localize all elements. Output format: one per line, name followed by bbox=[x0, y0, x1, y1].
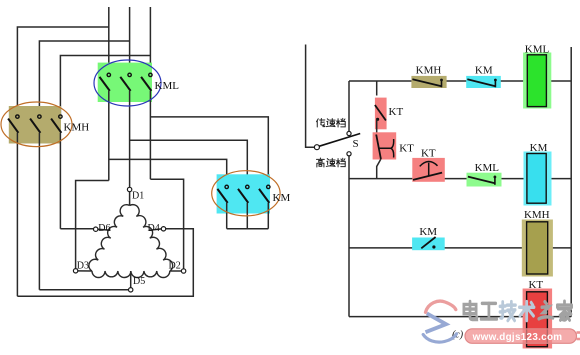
svg-text:KT: KT bbox=[421, 147, 436, 159]
watermark logo red top arc bbox=[426, 301, 456, 312]
wire row2 bbox=[349, 178, 413, 180]
wire KML to D3 bbox=[76, 181, 109, 269]
wire D1 net to KM middle bbox=[130, 140, 248, 185]
coil KT bbox=[527, 292, 548, 347]
wire KMH to D4 bbox=[17, 229, 193, 296]
label high-speed position (Chinese) bbox=[316, 158, 324, 167]
wire right rail bbox=[570, 47, 572, 317]
contactor KMH pole 3 bbox=[59, 115, 62, 118]
terminal D1 bbox=[127, 187, 131, 191]
svg-text:KML: KML bbox=[475, 162, 500, 174]
watermark character 6 bbox=[557, 301, 571, 320]
contactor KM ellipse bbox=[212, 171, 280, 216]
wire KT branch middle bbox=[376, 119, 378, 135]
wire KML to D2 bbox=[150, 179, 183, 269]
terminal D5 bbox=[129, 288, 133, 292]
motor winding right side (D1-D2 coil) bbox=[130, 205, 173, 271]
watermark group bbox=[423, 301, 580, 343]
svg-text:D5: D5 bbox=[133, 276, 145, 287]
terminal D6 bbox=[94, 227, 98, 231]
selector S low-speed contact bbox=[347, 131, 351, 135]
terminal D2 bbox=[181, 269, 185, 273]
svg-text:KT: KT bbox=[528, 279, 543, 291]
wire L2 branch to KMH bbox=[39, 41, 129, 115]
wire bottom bus bbox=[349, 316, 527, 318]
contactor KML pole 1 bbox=[107, 73, 110, 76]
svg-text:D1: D1 bbox=[132, 191, 144, 202]
contactor KMH pole 2 bbox=[38, 115, 41, 118]
svg-text:KT: KT bbox=[399, 143, 414, 155]
selector S common node bbox=[314, 145, 319, 150]
svg-text:KMH: KMH bbox=[416, 65, 442, 77]
coil KML bbox=[527, 55, 546, 107]
svg-text:KM: KM bbox=[419, 226, 437, 238]
contact KT timed-close canopy bbox=[420, 162, 438, 167]
svg-text:KMH: KMH bbox=[64, 122, 90, 134]
svg-text:KM: KM bbox=[273, 192, 291, 204]
selector S blade bbox=[319, 134, 360, 147]
contact KT NO blade bbox=[375, 105, 386, 121]
contactor KML highlight bbox=[98, 63, 152, 102]
coil KM bbox=[527, 154, 546, 204]
watermark url pill bbox=[465, 329, 577, 344]
wire D6 stub bbox=[98, 229, 111, 230]
wire KM star bar bbox=[227, 228, 269, 230]
contact KT NO highlight bbox=[375, 98, 387, 130]
svg-text:www.dgjs123.com: www.dgjs123.com bbox=[472, 332, 563, 343]
contactor KML ellipse bbox=[94, 60, 161, 106]
wire D2 net to KM right bbox=[150, 117, 268, 185]
contact KML NC seat bbox=[494, 176, 496, 185]
coil KT highlight bbox=[523, 289, 553, 349]
wire D3 stub bbox=[78, 270, 92, 272]
motor winding left side (D1-D3 coil) bbox=[89, 205, 130, 271]
svg-text:S: S bbox=[353, 138, 359, 150]
contact KML NC highlight bbox=[467, 173, 502, 187]
contact KMH NC blade bbox=[412, 79, 441, 86]
motor winding bottom side (D3-D2 coil) bbox=[92, 271, 170, 278]
node KT NO lower terminal bbox=[376, 118, 379, 121]
contact KT delay cup bbox=[379, 139, 394, 158]
contact KT timed-close stem bbox=[428, 163, 430, 176]
wire left control vertical bbox=[348, 156, 350, 317]
contactor KM pole 3 bbox=[267, 185, 270, 188]
watermark character 3 bbox=[500, 302, 515, 321]
coil KM highlight bbox=[524, 152, 552, 206]
contact KT delay blade bbox=[376, 135, 381, 160]
wire D1 stub bbox=[129, 192, 131, 206]
wire KMH to D6 bbox=[60, 228, 93, 230]
wire D3 net to KM left bbox=[109, 159, 227, 185]
watermark character 4 bbox=[519, 302, 534, 321]
contact KM NC blade bbox=[467, 79, 495, 86]
contact KT timed-close highlight bbox=[412, 158, 445, 182]
contactor KMH highlight bbox=[9, 106, 61, 144]
wire KT branch lower bbox=[377, 159, 381, 179]
watermark character 2 bbox=[481, 303, 497, 319]
node KM NO right terminal bbox=[432, 245, 435, 248]
wire left rail bbox=[306, 45, 315, 148]
contactor KML pole 3 bbox=[149, 73, 152, 76]
selector S high-speed contact bbox=[347, 152, 351, 156]
watermark character 5 bbox=[539, 302, 553, 319]
contactor KMH pole 1 bbox=[16, 115, 19, 118]
terminal D4 bbox=[161, 227, 165, 231]
wire L3 branch to KMH bbox=[60, 56, 150, 115]
contactor KML pole 2 bbox=[128, 73, 131, 76]
watermark character 1 bbox=[464, 301, 477, 319]
svg-text:D2: D2 bbox=[169, 260, 181, 271]
svg-text:D3: D3 bbox=[77, 260, 89, 271]
wire row3 bbox=[349, 247, 420, 249]
svg-text:KML: KML bbox=[155, 80, 180, 92]
contact KMH NC highlight bbox=[411, 76, 446, 88]
watermark logo blue bottom arc bbox=[423, 334, 456, 342]
terminal D3 bbox=[73, 269, 77, 273]
contact KT delay highlight bbox=[373, 132, 397, 159]
wire top bus bbox=[349, 80, 412, 82]
wire D4 stub bbox=[150, 229, 162, 230]
wire D5 stub bbox=[130, 271, 132, 288]
contactor KM highlight bbox=[217, 174, 270, 213]
contact KM NO highlight bbox=[412, 238, 445, 251]
contact KM NO blade bbox=[421, 237, 435, 248]
contact KM NC highlight bbox=[466, 76, 501, 88]
svg-text:KMH: KMH bbox=[524, 209, 550, 221]
wire L2 supply vertical bbox=[129, 7, 131, 73]
svg-text:KM: KM bbox=[475, 65, 493, 77]
svg-text:D6: D6 bbox=[98, 223, 110, 234]
wire D2 stub bbox=[170, 270, 182, 272]
wire KT branch upper bbox=[376, 81, 378, 96]
svg-text:KML: KML bbox=[525, 43, 550, 55]
label low-speed position (Chinese) bbox=[316, 118, 324, 127]
contact KMH NC seat bbox=[441, 79, 443, 87]
coil KMH bbox=[527, 222, 548, 274]
wire S low contact to top bus bbox=[348, 81, 350, 132]
coil KMH highlight bbox=[522, 220, 553, 277]
contactor KMH ellipse bbox=[1, 102, 72, 147]
contact KT timed-close blade bbox=[413, 173, 442, 180]
svg-text:KM: KM bbox=[530, 142, 548, 154]
wire KMH to D5 bbox=[39, 289, 128, 291]
watermark edge marks bbox=[577, 331, 580, 334]
wire L1 supply vertical bbox=[108, 7, 110, 73]
contactor KM pole 2 bbox=[246, 185, 249, 188]
watermark logo blue zigzag bbox=[426, 313, 447, 332]
contact KM NC seat bbox=[494, 79, 496, 87]
coil KML highlight bbox=[523, 53, 551, 109]
svg-text:KT: KT bbox=[389, 106, 404, 118]
contact KML NC blade bbox=[468, 177, 495, 184]
wire L1 branch to KMH bbox=[17, 27, 108, 115]
wire L3 supply vertical bbox=[149, 7, 151, 73]
svg-text:D4: D4 bbox=[148, 223, 160, 234]
contactor KM pole 1 bbox=[225, 185, 228, 188]
